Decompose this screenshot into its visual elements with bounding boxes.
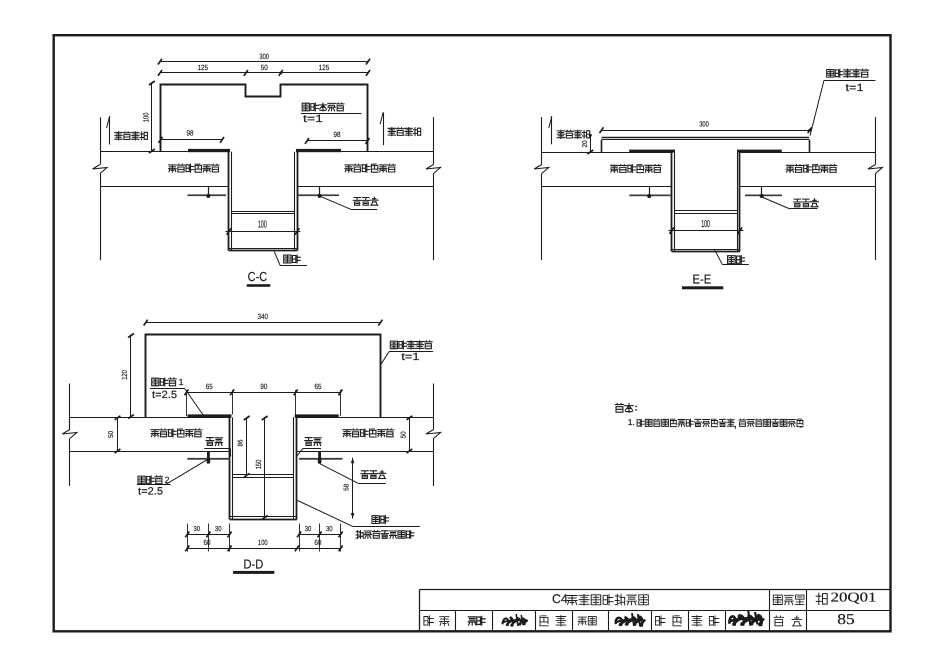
panel 铝蜂窝夹芯板 left C-C (100, 152, 229, 187)
dimension 150 vertical D-D (254, 416, 268, 520)
name 左科 (692, 616, 719, 626)
label 立柱板1 t=2.5 with leader (150, 377, 204, 416)
fastener right C-C (298, 186, 339, 198)
svg-text:,: , (734, 419, 736, 429)
svg-text:t=2.5: t=2.5 (138, 486, 163, 498)
svg-text:86: 86 (238, 439, 245, 446)
label 挡板外侧 left C-C with arrow (107, 116, 148, 144)
fastener right D-D (299, 452, 342, 464)
plate 立柱外包板 E-E (602, 138, 810, 153)
dimension 100 channel C-C (226, 219, 301, 234)
svg-text:125: 125 (319, 63, 330, 72)
label 紧固器 C-C with leader (321, 197, 378, 210)
dimension 60/100/60 D-D (185, 538, 342, 552)
wall edge right E-E with break (868, 117, 883, 260)
signature blob 2 (616, 617, 645, 626)
notes 说明 (615, 403, 803, 430)
label 挡板外侧 right C-C with arrow (380, 112, 421, 145)
atlas number 渝 20Q01 (816, 589, 876, 604)
wall edge right C-C with break (426, 117, 441, 260)
svg-text:2: 2 (165, 475, 170, 485)
svg-text:E-E: E-E (693, 272, 712, 287)
label 双钢板焊接立柱 (356, 531, 363, 539)
svg-text:120: 120 (120, 370, 129, 380)
svg-text:50: 50 (261, 63, 268, 72)
wall edge left C-C with break (93, 117, 108, 260)
label 焊接 right D-D (297, 438, 322, 457)
title text C4围挡立柱大样图 (552, 592, 648, 606)
plate 立柱装饰板 outline C-C (161, 85, 368, 152)
svg-text:98: 98 (187, 129, 194, 138)
svg-text:300: 300 (699, 120, 709, 129)
fastener left C-C (188, 186, 227, 198)
fastener left E-E (629, 186, 671, 198)
svg-text:t=1: t=1 (846, 82, 864, 94)
svg-text:65: 65 (206, 382, 213, 391)
svg-text:t=2.5: t=2.5 (152, 389, 177, 401)
svg-text:C-C: C-C (248, 269, 268, 284)
dimension 100 vertical C-C (142, 81, 155, 153)
cell label 校对 (540, 616, 566, 626)
plate bar left on panel C-C (188, 149, 230, 152)
dimension 340 D-D (144, 312, 383, 325)
column 立柱 channel E-E (672, 153, 740, 252)
dimension 20 vertical E-E (582, 134, 593, 154)
panel 铝蜂窝夹芯板 left E-E (542, 153, 672, 187)
svg-text:1.: 1. (628, 417, 635, 427)
dimension 300 E-E (600, 120, 812, 134)
section title C-C (247, 269, 270, 287)
svg-text:300: 300 (259, 52, 269, 61)
label 焊接 left D-D (204, 438, 230, 457)
svg-text:65: 65 (315, 382, 322, 391)
plate bar left on panel E-E (629, 150, 675, 153)
dimension 120 vertical D-D (120, 334, 134, 419)
svg-text::: : (635, 403, 638, 414)
cell label 设计 (655, 616, 681, 626)
label 立柱外包板 t=1 E-E with leader (810, 69, 876, 136)
svg-text:t=1: t=1 (303, 113, 323, 125)
label 立柱 C-C with leader (274, 252, 307, 266)
plate bar 立柱板1 left D-D (188, 414, 232, 417)
svg-text:50: 50 (108, 431, 115, 438)
svg-text:30: 30 (326, 526, 333, 533)
svg-text:30: 30 (194, 526, 201, 533)
label 立柱 D-D with leader (298, 501, 420, 527)
plate bar right on panel C-C (296, 149, 341, 152)
dimension 125/50/125 C-C (158, 63, 370, 76)
svg-text:50: 50 (400, 431, 407, 438)
column 立柱 channel D-D (230, 417, 297, 519)
label 紧固器 E-E with leader (763, 198, 818, 210)
name 周覠 (468, 616, 485, 625)
svg-text:D-D: D-D (244, 557, 264, 572)
wall edge right D-D with break (426, 384, 441, 487)
dimension 58 vertical D-D (344, 458, 355, 519)
dimension 98 left C-C (159, 129, 225, 143)
signature blob 3 (729, 615, 763, 625)
wall edge left D-D with break (62, 384, 77, 487)
svg-text:100: 100 (258, 538, 268, 547)
dimension 50 right D-D (400, 416, 412, 453)
cell label 页次 (774, 616, 802, 626)
svg-text:85: 85 (837, 612, 855, 628)
cell label 图集号 (773, 595, 782, 604)
svg-text:1: 1 (179, 377, 184, 387)
dimension 50 left D-D (108, 416, 121, 453)
svg-text:t=1: t=1 (401, 351, 419, 363)
fastener left D-D (187, 452, 230, 464)
dimension 30/30 right D-D (297, 526, 343, 537)
dimension 65/90/65 D-D (184, 382, 342, 416)
label 立柱 E-E with leader (715, 250, 749, 265)
name 卫纲 (578, 617, 596, 625)
label 立柱装饰板 t=1 (301, 103, 362, 125)
plate 立柱外包板 box D-D (146, 335, 381, 418)
svg-text:20Q01: 20Q01 (831, 589, 877, 604)
svg-text:20: 20 (582, 140, 589, 147)
dimension 86 vertical D-D (238, 416, 250, 477)
extension lines bottom D-D (188, 524, 341, 552)
plate bar right on panel E-E (737, 150, 782, 153)
panel 铝蜂窝夹芯板 right D-D (297, 418, 434, 452)
dimension 300 C-C (158, 52, 370, 65)
panel 铝蜂窝夹芯板 left D-D (70, 418, 230, 452)
dimension 98 right C-C (305, 130, 370, 144)
label 挡板外侧 E-E with arrow (549, 116, 590, 144)
column 立柱 channel C-C (229, 152, 298, 251)
svg-text:58: 58 (344, 484, 351, 491)
section title D-D (233, 557, 274, 574)
svg-text:125: 125 (197, 63, 208, 72)
label 立柱外包板 t=1 D-D with leader (381, 341, 434, 365)
dimension 100 channel E-E (669, 219, 744, 234)
svg-text:100: 100 (701, 219, 710, 230)
svg-text:30: 30 (305, 526, 312, 533)
svg-text:.: . (800, 419, 802, 429)
svg-text:340: 340 (257, 312, 268, 321)
title block table (420, 589, 891, 631)
dimension 30/30 left D-D (185, 526, 231, 537)
fastener right E-E (745, 186, 782, 198)
cell label 审核 (424, 616, 449, 626)
svg-text:30: 30 (215, 526, 222, 533)
panel 铝蜂窝夹芯板 right E-E (740, 153, 876, 187)
panel 铝蜂窝夹芯板 right C-C (297, 152, 433, 187)
section title E-E (682, 272, 723, 290)
svg-text:90: 90 (260, 382, 267, 391)
svg-text:150: 150 (254, 460, 263, 470)
wall edge left E-E with break (534, 117, 549, 260)
svg-text:98: 98 (334, 130, 341, 139)
svg-text:C4: C4 (552, 592, 568, 606)
signature blob 1 (503, 617, 528, 625)
page border frame (54, 35, 891, 631)
svg-text:100: 100 (142, 113, 151, 123)
label 立柱板2 t=2.5 with leader (137, 460, 207, 498)
plate bar 立柱板1 right D-D (295, 414, 339, 417)
label 紧固器 D-D with leader (320, 464, 386, 484)
svg-text:60: 60 (314, 538, 321, 547)
svg-text:60: 60 (204, 538, 211, 547)
svg-text:100: 100 (258, 219, 267, 230)
